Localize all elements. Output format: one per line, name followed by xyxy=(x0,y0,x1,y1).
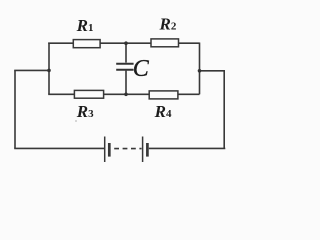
scan speck xyxy=(75,120,77,122)
wire right connector xyxy=(200,70,226,72)
resistor R1 xyxy=(73,40,100,48)
capacitor C plates xyxy=(116,64,133,70)
resistor R2 xyxy=(151,39,179,47)
wire dashed battery continuation xyxy=(114,148,141,150)
battery cell E2 short plate xyxy=(146,143,149,157)
node junction bottom middle xyxy=(124,93,128,97)
resistor R3 xyxy=(74,90,103,98)
wire left outer vertical xyxy=(14,70,16,148)
node junction right xyxy=(198,69,202,73)
svg-text:C: C xyxy=(133,56,150,82)
battery cell E1 long plate xyxy=(104,137,106,163)
wire bottom left segment xyxy=(14,147,104,149)
resistor R4 xyxy=(149,91,178,99)
node junction top middle xyxy=(124,41,128,45)
wire left connector xyxy=(14,69,49,71)
battery cell E2 long plate xyxy=(142,137,144,163)
wire top rail xyxy=(48,42,199,44)
wire capacitor top lead xyxy=(125,43,127,62)
wire right inner vertical xyxy=(199,43,201,95)
wire bottom right segment xyxy=(149,147,226,149)
wire capacitor bottom lead xyxy=(125,71,127,95)
wire left inner vertical xyxy=(48,43,50,95)
wire bottom rail xyxy=(48,93,199,95)
battery cell E1 short plate xyxy=(108,143,111,157)
node junction left xyxy=(47,69,51,73)
wire right outer vertical xyxy=(223,70,225,148)
